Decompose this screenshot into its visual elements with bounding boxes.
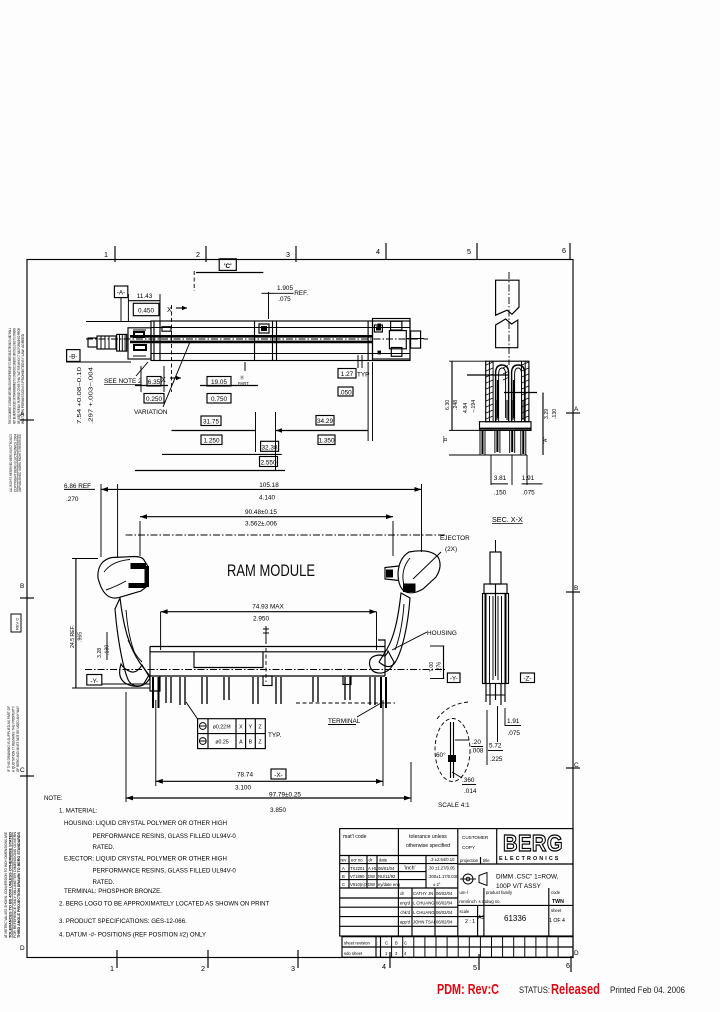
svg-text:mm/inch: mm/inch xyxy=(459,899,477,904)
dim 3.81/.150 xyxy=(490,455,492,485)
datum flag -Y- left xyxy=(87,675,102,686)
svg-text:.014: .014 xyxy=(464,788,477,795)
svg-text:SEE NOTE 2: SEE NOTE 2 xyxy=(104,378,142,385)
terminal bottom tails xyxy=(486,684,505,705)
svg-text:± 2°: ± 2° xyxy=(433,882,441,887)
housing right end xyxy=(384,647,386,677)
section bottom plate xyxy=(480,422,532,431)
svg-text:TX2201: TX2201 xyxy=(350,866,365,871)
svg-text:FOR REFERENCE ONLY. MILLIMETER: FOR REFERENCE ONLY. MILLIMETER DIMENSION… xyxy=(13,832,17,938)
svg-text:title: title xyxy=(483,858,490,863)
GD&T feature control frame xyxy=(186,702,282,749)
projection symbol xyxy=(463,874,473,884)
svg-text:OF BERG AND MUST NOT BE USED A: OF BERG AND MUST NOT BE USED ANY WAY xyxy=(16,705,20,772)
left margin note block 4 xyxy=(7,705,20,772)
svg-text:"B": "B" xyxy=(443,436,449,443)
svg-text:1. MATERIAL:: 1. MATERIAL: xyxy=(59,808,98,815)
svg-text:1: 1 xyxy=(104,250,108,259)
svg-text:.248: .248 xyxy=(453,400,459,410)
top view left extension line to -B- xyxy=(86,321,151,323)
signature rows xyxy=(340,897,458,899)
zone ticks bottom xyxy=(110,950,571,973)
svg-text:X: X xyxy=(161,375,166,384)
svg-text:THIS DOCUMENT CONTAINS INFORMA: THIS DOCUMENT CONTAINS INFORMATION PROPR… xyxy=(8,328,12,424)
svg-text:V71890: V71890 xyxy=(350,874,365,879)
svg-text:.008: .008 xyxy=(471,748,484,755)
svg-text:TYP.: TYP. xyxy=(268,732,282,739)
datum flag -Y- right xyxy=(447,673,460,683)
svg-text:1.250: 1.250 xyxy=(204,438,220,445)
projection cell xyxy=(458,863,573,865)
zone ticks top xyxy=(104,243,570,262)
svg-text:chk'd: chk'd xyxy=(400,910,410,915)
svg-text:3.562±.006: 3.562±.006 xyxy=(245,521,277,528)
svg-text:.276: .276 xyxy=(436,662,442,672)
svg-text:6: 6 xyxy=(562,246,566,255)
svg-text:19.05: 19.05 xyxy=(211,379,227,386)
svg-text:.360: .360 xyxy=(462,777,475,784)
svg-text:REF.: REF. xyxy=(294,290,308,297)
dim 1.27 TYP boxed xyxy=(338,369,356,379)
pin tip reference line xyxy=(449,454,527,456)
section inner slots xyxy=(497,380,499,418)
svg-text:.075: .075 xyxy=(522,490,535,497)
svg-text:tolerance unless: tolerance unless xyxy=(409,834,447,840)
svg-text:ecr no: ecr no xyxy=(351,858,363,863)
svg-text:3: 3 xyxy=(291,964,295,973)
break bar upper xyxy=(496,280,519,315)
section body outline xyxy=(486,361,529,422)
rev table header xyxy=(340,855,458,857)
svg-text:3: 3 xyxy=(286,250,290,259)
svg-text:A QUOTATION IT REMAINS THE PRO: A QUOTATION IT REMAINS THE PROPERTY xyxy=(11,705,15,772)
svg-text:OR USED FOR ANY PURPOSE OTHER: OR USED FOR ANY PURPOSE OTHER THAN THAT … xyxy=(17,328,21,424)
break bar lower xyxy=(496,319,518,348)
svg-text:RAM MODULE: RAM MODULE xyxy=(227,561,315,580)
break bar centerline xyxy=(508,272,510,365)
svg-text:C: C xyxy=(342,882,345,887)
dim 6.30/.248 rotated xyxy=(445,400,459,410)
svg-text:A3: A3 xyxy=(478,915,484,921)
svg-text:projection: projection xyxy=(460,858,479,863)
housing key bump center xyxy=(263,676,272,686)
svg-text:NOTE:: NOTE: xyxy=(44,795,63,802)
svg-text:JOHN TSAI: JOHN TSAI xyxy=(413,920,435,925)
svg-text:sheet revision: sheet revision xyxy=(344,941,371,946)
svg-text:3.850: 3.850 xyxy=(270,807,286,814)
svg-text:BERG: BERG xyxy=(503,830,563,856)
top view right ejector tab xyxy=(411,331,421,348)
svg-text:1 OF 4: 1 OF 4 xyxy=(549,918,565,924)
svg-text:app'd: app'd xyxy=(400,920,411,925)
svg-text:2.550: 2.550 xyxy=(261,460,277,467)
6.30 dim line xyxy=(451,361,453,430)
svg-text:TERMINAL: TERMINAL xyxy=(328,718,361,725)
svg-text:NU/11/92: NU/11/92 xyxy=(378,874,396,879)
svg-text:TWN: TWN xyxy=(552,899,564,905)
svg-text:-Y-: -Y- xyxy=(450,676,458,683)
svg-text:'C': 'C' xyxy=(224,263,232,270)
dim 31.75 / 1.250 xyxy=(201,416,221,426)
svg-text:.150: .150 xyxy=(494,490,507,497)
svg-text:06/02/04: 06/02/04 xyxy=(436,920,453,925)
svg-text:TERMINAL: PHOSPHOR BRONZE.: TERMINAL: PHOSPHOR BRONZE. xyxy=(64,888,162,895)
right info cells xyxy=(458,904,573,906)
svg-text:NOT BE REPRODUCED OR TRANSFERR: NOT BE REPRODUCED OR TRANSFERRED TO OTHE… xyxy=(12,328,16,424)
svg-text:.30 ±1.27/0.05: .30 ±1.27/0.05 xyxy=(428,866,455,871)
svg-text:date: date xyxy=(379,858,388,863)
dim 34.29 / 1.350 xyxy=(316,416,334,426)
4.84 pointer line xyxy=(467,374,509,376)
svg-text:.075: .075 xyxy=(278,296,291,303)
svg-text:.300±1.17/0.030: .300±1.17/0.030 xyxy=(428,874,459,879)
terminal body xyxy=(483,594,509,684)
svg-text:sdo sheet: sdo sheet xyxy=(344,951,363,956)
dim 4.84/.194 rotated xyxy=(463,400,477,413)
3.29 pointer line xyxy=(504,392,537,394)
detail circle (dashed) xyxy=(435,719,470,782)
dim 1.91/.075 xyxy=(526,455,528,485)
svg-text:X: X xyxy=(167,305,172,314)
svg-text:STATUS:: STATUS: xyxy=(519,985,550,996)
svg-text:A: A xyxy=(342,866,345,871)
svg-text:otherwise specified: otherwise specified xyxy=(406,843,450,849)
svg-text:ALL RIGHTS RESERVED BERG ELECT: ALL RIGHTS RESERVED BERG ELECTRONICS xyxy=(9,434,13,492)
svg-text:C: C xyxy=(20,767,25,774)
top view centerline xyxy=(86,338,428,340)
svg-text:A: A xyxy=(239,740,243,746)
svg-text:um-l: um-l xyxy=(460,890,468,895)
svg-text:1.350: 1.350 xyxy=(319,438,335,445)
left ejector hook xyxy=(120,664,150,686)
section line X xyxy=(171,305,173,392)
section terminal arch right xyxy=(512,365,525,422)
svg-text:90.48±0.15: 90.48±0.15 xyxy=(245,509,277,516)
svg-text:7.00: 7.00 xyxy=(429,662,435,672)
svg-text:.965: .965 xyxy=(77,632,83,642)
svg-text:C: C xyxy=(385,941,388,946)
housing left end xyxy=(150,647,160,692)
dim 97.79 / 3.850 xyxy=(125,692,127,802)
svg-text:C: C xyxy=(574,762,579,769)
left margin note block 5 xyxy=(4,831,21,938)
svg-text:6.35: 6.35 xyxy=(148,379,161,386)
svg-text:A HU: A HU xyxy=(368,866,378,871)
svg-text:rev: rev xyxy=(341,858,348,863)
svg-text:2: 2 xyxy=(196,250,200,259)
svg-text:REV C: REV C xyxy=(15,618,20,630)
svg-text:RATED.: RATED. xyxy=(93,879,115,886)
svg-text:V910(n)7: V910(n)7 xyxy=(350,882,368,887)
left margin small boxed label xyxy=(11,614,21,632)
svg-text:CATHY JN: CATHY JN xyxy=(413,891,433,896)
svg-text:B: B xyxy=(20,583,24,590)
svg-text:UNPUBLISHED WORK RIGHTS RESERV: UNPUBLISHED WORK RIGHTS RESERVED xyxy=(18,434,22,492)
svg-text:CUSTOMER: CUSTOMER xyxy=(462,835,489,840)
svg-text:Z: Z xyxy=(258,740,261,746)
svg-text:eng'd: eng'd xyxy=(400,901,411,906)
left margin note block 2 xyxy=(9,434,22,492)
svg-text:5: 5 xyxy=(473,963,477,972)
left margin proprietary note block 1 xyxy=(8,328,25,424)
svg-text:Released: Released xyxy=(551,981,600,998)
svg-text:0.750: 0.750 xyxy=(211,396,227,403)
svg-text:.20: .20 xyxy=(472,739,481,746)
svg-text:78.74: 78.74 xyxy=(237,772,253,779)
terminal collar xyxy=(484,584,507,594)
right ejector lever xyxy=(398,551,440,593)
svg-text:COPY: COPY xyxy=(462,845,475,850)
svg-text:ey/date eng: ey/date eng xyxy=(378,882,401,887)
svg-text:7.54 +0.08−0.10: 7.54 +0.08−0.10 xyxy=(77,367,83,424)
svg-text:VARIATION: VARIATION xyxy=(134,409,168,416)
right ejector arm xyxy=(379,593,410,667)
svg-text:SEC. X-X: SEC. X-X xyxy=(492,515,523,524)
dim 105.18 / 4.140 line xyxy=(101,488,422,490)
svg-text:2 : 1: 2 : 1 xyxy=(465,919,475,925)
svg-text:AT METRIC VALUES SHOWN. CONVER: AT METRIC VALUES SHOWN. CONVERSION TO IN… xyxy=(4,832,8,938)
svg-text:DIMM .CSC" 1=ROW,: DIMM .CSC" 1=ROW, xyxy=(496,874,559,881)
svg-text:X: X xyxy=(239,725,243,731)
svg-text:-B-: -B- xyxy=(69,353,78,360)
svg-text:ø0.25: ø0.25 xyxy=(215,740,228,746)
datum flag -A- xyxy=(114,286,127,298)
svg-text:PDM: Rev:C: PDM: Rev:C xyxy=(437,981,499,998)
svg-text:97.79±0.25: 97.79±0.25 xyxy=(269,792,301,799)
svg-text:0.250: 0.250 xyxy=(146,396,162,403)
svg-text:2. BERG LOGO TO BE APPROXIMATE: 2. BERG LOGO TO BE APPROXIMATELY LOCATED… xyxy=(59,901,270,908)
svg-text:HOUSING: HOUSING xyxy=(427,630,457,637)
top view housing body xyxy=(151,321,410,361)
svg-text:B: B xyxy=(574,585,578,592)
detail pin cross-section xyxy=(450,722,452,778)
terminal center pin line xyxy=(495,584,497,676)
svg-text:Y: Y xyxy=(249,725,253,731)
svg-text:61336: 61336 xyxy=(504,914,527,923)
top view right end block xyxy=(373,319,411,360)
terminal pins row xyxy=(153,677,159,708)
housing key bump right xyxy=(343,676,351,685)
svg-text:06/01/04: 06/01/04 xyxy=(378,866,395,871)
section pins xyxy=(483,430,524,454)
svg-text:.130: .130 xyxy=(552,409,558,419)
svg-text:60°: 60° xyxy=(436,751,446,759)
zone letters left xyxy=(20,411,34,952)
svg-text:ELECTRONICS: ELECTRONICS xyxy=(499,856,560,862)
svg-text:IF THIS DRAWING IS SUPPLIED AS: IF THIS DRAWING IS SUPPLIED AS PART OF xyxy=(7,705,11,772)
zone letters right xyxy=(566,406,580,957)
dim 7.00/.276 rotated with bracket xyxy=(430,645,444,647)
section body wall hatching xyxy=(486,362,529,419)
housing bar top edge xyxy=(150,646,385,648)
svg-text:D: D xyxy=(574,950,579,957)
svg-text:.270: .270 xyxy=(66,496,79,503)
svg-text:D: D xyxy=(20,945,25,952)
svg-text:1.91: 1.91 xyxy=(507,718,520,725)
svg-text:4: 4 xyxy=(376,247,380,256)
svg-text:3. PRODUCT SPECIFICATIONS: GES: 3. PRODUCT SPECIFICATIONS: GES-12-066. xyxy=(59,918,187,925)
svg-text:C: C xyxy=(404,941,407,946)
zone flag C with bracket xyxy=(219,259,236,271)
top view key mark right xyxy=(374,325,382,332)
svg-text:4: 4 xyxy=(382,962,386,971)
dim 1.91/.075 pin xyxy=(497,706,499,742)
svg-text:−.194: −.194 xyxy=(471,400,477,413)
svg-text:Printed Feb 04. 2006: Printed Feb 04. 2006 xyxy=(610,985,685,996)
svg-text:32.38: 32.38 xyxy=(262,444,278,451)
housing center recess xyxy=(194,652,263,668)
svg-text:6: 6 xyxy=(566,961,570,970)
svg-text:SCALE 4:1: SCALE 4:1 xyxy=(438,802,470,809)
svg-text:Z: Z xyxy=(258,725,261,731)
section body wall lines xyxy=(488,361,490,422)
left ejector lever xyxy=(98,557,148,599)
right ejector hook xyxy=(369,651,394,673)
dim 78.74 / 3.100 xyxy=(155,700,157,786)
svg-text:34.29: 34.29 xyxy=(317,418,333,425)
section terminal arch left xyxy=(496,365,509,422)
svg-text:"A": "A" xyxy=(543,437,549,444)
extension lines for 105.18 and 6.86 xyxy=(100,484,102,557)
left ejector arm xyxy=(115,598,149,686)
dim 19.05 boxed xyxy=(200,385,258,387)
svg-text:L CHUANG: L CHUANG xyxy=(413,910,434,915)
svg-text:dr: dr xyxy=(369,858,373,863)
svg-text:3.28: 3.28 xyxy=(97,648,103,658)
svg-text:-Y-: -Y- xyxy=(90,678,98,685)
svg-text:ø0.22Ⓜ: ø0.22Ⓜ xyxy=(213,723,231,731)
svg-text:-X-: -X- xyxy=(274,772,283,779)
svg-text:TYP: TYP xyxy=(357,372,369,379)
top view inner top line xyxy=(151,327,410,329)
svg-text:.075: .075 xyxy=(508,730,521,737)
svg-text:THIRD ANGLE PROJECTION DRAWN T: THIRD ANGLE PROJECTION DRAWN TO BERG STA… xyxy=(17,831,21,938)
title block outer box xyxy=(340,829,573,936)
svg-text:6.30: 6.30 xyxy=(445,400,451,410)
svg-text:3.29: 3.29 xyxy=(544,409,550,419)
dim 5.72/.225 xyxy=(486,710,488,765)
top view key mark center xyxy=(259,324,269,333)
top view left ejector outer piece xyxy=(97,336,116,349)
svg-text:B: B xyxy=(342,874,345,879)
svg-text:sheet: sheet xyxy=(551,908,562,913)
center datum symbol xyxy=(263,626,269,644)
dim 3.28/.130 rotated xyxy=(97,645,110,658)
svg-text:B: B xyxy=(395,941,398,946)
svg-text:3.81: 3.81 xyxy=(494,475,507,482)
svg-text:3.100: 3.100 xyxy=(235,785,251,792)
svg-text:.225: .225 xyxy=(490,756,503,763)
svg-text:24.5 REF.: 24.5 REF. xyxy=(70,625,76,648)
svg-text:A: A xyxy=(574,406,579,413)
svg-text:product family: product family xyxy=(486,890,513,895)
svg-text:1: 1 xyxy=(110,964,114,973)
svg-text:PART: PART xyxy=(238,381,249,386)
svg-text:0.450: 0.450 xyxy=(138,308,154,315)
svg-text:06/02/04: 06/02/04 xyxy=(436,891,453,896)
svg-text:COPYRIGHT BERG ELECTRONICS 200: COPYRIGHT BERG ELECTRONICS 2004 xyxy=(14,434,18,492)
top view divider lines xyxy=(153,321,155,361)
svg-text:EJECTOR: LIQUID CRYSTAL POLYME: EJECTOR: LIQUID CRYSTAL POLYMER OR OTHER… xyxy=(64,856,227,863)
svg-text:5.72: 5.72 xyxy=(489,743,502,750)
svg-text:scale: scale xyxy=(460,909,470,914)
dim 3.29/.130 rotated xyxy=(544,409,558,419)
svg-text:1.91: 1.91 xyxy=(522,475,535,482)
svg-text:2: 2 xyxy=(201,964,205,973)
svg-text:4.140: 4.140 xyxy=(259,495,275,502)
svg-text:(2X): (2X) xyxy=(445,546,457,553)
datum flag -Z- xyxy=(521,673,535,683)
dim 32.38 / 2.550 xyxy=(261,441,279,451)
svg-text:dr: dr xyxy=(400,891,404,896)
svg-text:100P V/T ASSY: 100P V/T ASSY xyxy=(496,883,542,890)
dim 24.5 REF / .965 rotated xyxy=(75,559,77,689)
svg-text:HOUSING: LIQUID CRYSTAL POLYME: HOUSING: LIQUID CRYSTAL POLYMER OR OTHER… xyxy=(64,820,227,827)
svg-text::: : xyxy=(377,941,378,946)
lower pin centerline xyxy=(296,702,395,704)
svg-text:RATED.: RATED. xyxy=(93,844,115,851)
top view slot band lower xyxy=(130,341,372,344)
svg-text:-Z-: -Z- xyxy=(523,676,531,683)
svg-text:TOLERANCES TO BS 4500 UNLESS O: TOLERANCES TO BS 4500 UNLESS OTHERWISE S… xyxy=(8,832,12,938)
svg-text:PERFORMANCE RESINS, GLASS FILL: PERFORMANCE RESINS, GLASS FILLED UL94V-0 xyxy=(93,868,237,875)
svg-text:-A-: -A- xyxy=(117,290,126,297)
rotated tolerance dim left (7.54) xyxy=(77,367,95,424)
svg-text:EJECTOR: EJECTOR xyxy=(440,535,470,542)
svg-text:PERFORMANCE RESINS, GLASS FILL: PERFORMANCE RESINS, GLASS FILLED UL94V-0 xyxy=(93,833,237,840)
svg-text:1.905: 1.905 xyxy=(277,285,293,292)
module card phantom line xyxy=(126,534,446,536)
svg-text:4. DATUM -#- POSITIONS (REF PO: 4. DATUM -#- POSITIONS (REF POSITION #2)… xyxy=(59,932,206,939)
svg-text:.297 +.003−.004: .297 +.003−.004 xyxy=(89,367,95,424)
svg-text:DW: DW xyxy=(368,874,375,879)
datum flag -B- xyxy=(67,350,80,362)
svg-text:74.93 MAX: 74.93 MAX xyxy=(252,604,284,611)
svg-text:B: B xyxy=(249,740,253,746)
svg-text:'inch': 'inch' xyxy=(404,866,416,872)
svg-text:DW: DW xyxy=(368,882,375,887)
top view inner bottom line xyxy=(151,353,410,355)
svg-text:105.18: 105.18 xyxy=(259,482,279,489)
svg-text:WRITTEN PERMISSION IS PROHIBIT: WRITTEN PERMISSION IS PROHIBITED BY LAW.… xyxy=(21,334,25,424)
sheet revision strip xyxy=(342,937,573,958)
svg-text:.3 ±2.54/0.10: .3 ±2.54/0.10 xyxy=(430,857,455,862)
svg-text:5: 5 xyxy=(467,247,471,256)
top view left end block xyxy=(128,328,151,359)
svg-text:.050: .050 xyxy=(339,389,352,396)
svg-text:mat'l code: mat'l code xyxy=(343,834,367,840)
top view left ejector comb xyxy=(117,334,127,351)
svg-text:1.27: 1.27 xyxy=(341,371,354,378)
svg-text:06/02/04: 06/02/04 xyxy=(436,910,453,915)
sheet border xyxy=(27,260,573,958)
dim 6.35 boxed xyxy=(135,385,168,387)
svg-text:4.84: 4.84 xyxy=(463,403,469,413)
svg-text:06/02/04: 06/02/04 xyxy=(436,901,453,906)
svg-text:31.75: 31.75 xyxy=(203,419,219,426)
top view slot band upper xyxy=(130,335,372,338)
housing bar bottom edge xyxy=(150,675,385,677)
svg-text:code: code xyxy=(551,890,561,895)
svg-text:dwg no.: dwg no. xyxy=(486,899,501,904)
svg-text:2.950: 2.950 xyxy=(253,616,269,623)
title block vertical dividers row A xyxy=(397,829,399,888)
svg-text:L CHUANG: L CHUANG xyxy=(413,901,434,906)
svg-text:11.43: 11.43 xyxy=(137,293,153,300)
housing centerline xyxy=(85,669,445,671)
terminal pin tip xyxy=(490,552,501,584)
top view key mark left xyxy=(162,327,171,332)
